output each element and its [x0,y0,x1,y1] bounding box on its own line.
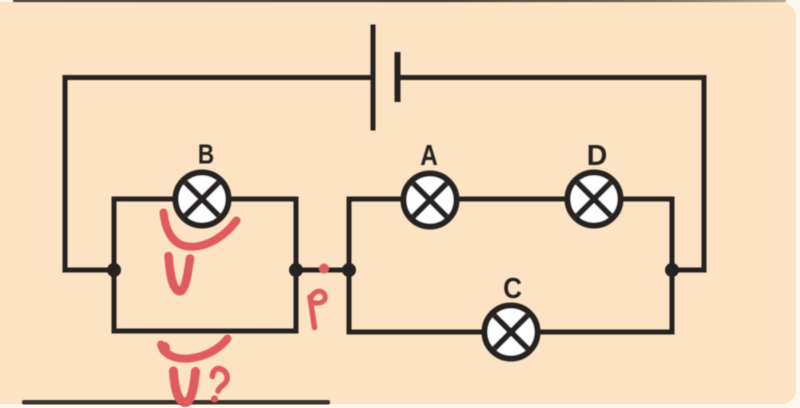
svg-text:A: A [420,139,438,171]
svg-text:B: B [198,139,214,170]
svg-text:C: C [503,272,522,305]
svg-text:D: D [587,140,608,172]
